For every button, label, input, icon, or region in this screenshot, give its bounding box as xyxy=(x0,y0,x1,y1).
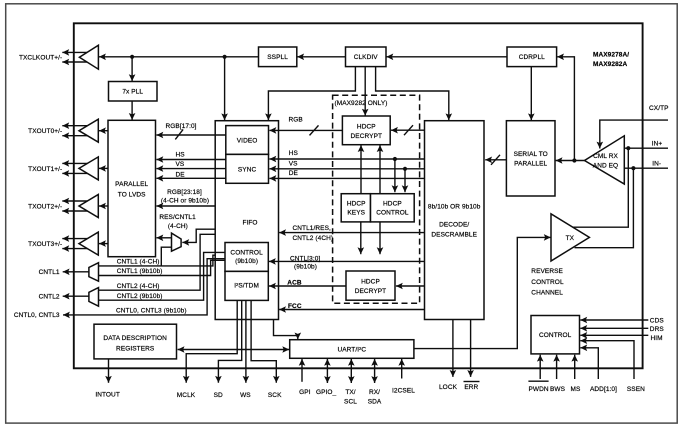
wire P2L to TXOUT3 buffer xyxy=(99,240,108,247)
svg-text:GPIO_: GPIO_ xyxy=(316,389,337,396)
wire RGB[23:18] FIFO to P2L xyxy=(156,203,215,210)
svg-text:CONTROL: CONTROL xyxy=(531,279,564,286)
svg-text:GPI: GPI xyxy=(299,389,311,396)
label RGB[23:18] (4-CH or 9b10b) xyxy=(161,189,209,205)
node junction IN+ xyxy=(626,146,630,150)
svg-text:SDA: SDA xyxy=(368,399,382,406)
svg-text:8b/10b OR 9b10b: 8b/10b OR 9b10b xyxy=(428,204,481,211)
svg-text:(MAX9282 ONLY): (MAX9282 ONLY) xyxy=(334,100,387,107)
wire FCC DECODE to FIFO xyxy=(279,306,424,313)
wire CNTL[3:0] DECODE to CONTROL xyxy=(269,258,425,265)
svg-text:CNTL0, CNTL3 (9b10b): CNTL0, CNTL3 (9b10b) xyxy=(116,307,187,314)
wire CNTL1/RES, CNTL2 DECODE to FIFO xyxy=(279,229,424,236)
VIDEO block xyxy=(226,126,269,155)
wire GPIO_ to UART (bidir) xyxy=(324,359,331,383)
SSPLL block xyxy=(259,47,297,67)
wire ERR output xyxy=(467,320,474,377)
svg-text:CNTL0, CNTL3: CNTL0, CNTL3 xyxy=(14,312,60,319)
pin label MS xyxy=(571,355,581,393)
node junction on clock line (FIFO tap) xyxy=(223,55,227,59)
node junction on clock line (7xPLL tap) xyxy=(130,55,134,59)
svg-text:WS: WS xyxy=(240,392,251,399)
svg-text:DE: DE xyxy=(176,171,186,178)
svg-text:IN+: IN+ xyxy=(652,141,663,148)
wire HDCP KEYS up to HDCP DECRYPT xyxy=(358,145,365,194)
svg-text:SSEN: SSEN xyxy=(627,386,645,393)
label CNTL[3:0] (9b10b) xyxy=(290,256,320,271)
wire ACB DECODE to HDCP DECRYPT xyxy=(396,283,425,290)
svg-text:CDRPLL: CDRPLL xyxy=(519,54,545,61)
HDCP CONTROL block xyxy=(371,194,415,222)
svg-text:CNTL1 (4-CH): CNTL1 (4-CH) xyxy=(117,259,160,266)
node junction on VS line xyxy=(403,167,407,171)
wire IN- xyxy=(624,167,668,169)
wire junction to FIFO top xyxy=(221,57,228,121)
CONTROL (9b10b) block xyxy=(225,243,268,272)
svg-text:TXOUT2+/-: TXOUT2+/- xyxy=(28,203,62,210)
wire HIM to CONTROL xyxy=(580,332,648,339)
svg-text:INTOUT: INTOUT xyxy=(95,391,120,398)
wire CDRPLL to SERIAL TO PARALLEL xyxy=(528,67,535,121)
svg-text:CNTL[3:0]: CNTL[3:0] xyxy=(290,256,320,263)
svg-text:TXOUT0+/-: TXOUT0+/- xyxy=(28,128,62,135)
svg-text:(4-CH): (4-CH) xyxy=(168,223,188,230)
svg-text:UART/I²C: UART/I²C xyxy=(337,346,366,353)
label RES/CNTL1 (4-CH) xyxy=(159,214,196,230)
wire TX output- to IN- xyxy=(575,168,634,248)
svg-text:I2CSEL: I2CSEL xyxy=(392,388,415,395)
svg-text:ERR: ERR xyxy=(464,384,478,391)
CNTL1 mux xyxy=(89,263,99,282)
svg-text:HIM: HIM xyxy=(651,335,663,342)
wire TXOUT3- output xyxy=(62,245,87,252)
svg-text:CNTL1: CNTL1 xyxy=(39,269,60,276)
node junction on HS line xyxy=(393,157,397,161)
wire CNTL1 (9b10b) CONTROL to mux xyxy=(99,260,226,275)
svg-text:HDCP: HDCP xyxy=(361,279,380,286)
wire RGB[17:0] VIDEO to P2L xyxy=(156,129,225,139)
wire MCLK output xyxy=(183,300,237,383)
svg-text:ACB: ACB xyxy=(287,280,302,287)
svg-text:TX: TX xyxy=(566,235,575,242)
wire SCK output xyxy=(251,300,280,383)
TXCLKOUT buffer xyxy=(79,45,98,69)
CNTL2 mux xyxy=(89,288,99,307)
label CNTL1/RES, CNTL2 (4CH) xyxy=(293,225,334,242)
wire junction to 7x PLL xyxy=(129,57,136,81)
wire HDCP CONTROL down xyxy=(377,222,384,254)
svg-text:REVERSE: REVERSE xyxy=(531,268,563,275)
svg-text:SERIAL TO: SERIAL TO xyxy=(514,151,548,158)
svg-text:RGB[23:18]: RGB[23:18] xyxy=(167,189,202,196)
wire PWDN to CONTROL xyxy=(537,355,544,379)
svg-text:HS: HS xyxy=(176,151,186,158)
wire P2L to TXOUT1 buffer xyxy=(99,165,108,172)
svg-text:PARALLEL: PARALLEL xyxy=(514,161,547,168)
wire TXOUT1+ output xyxy=(62,160,87,167)
svg-text:CNTL2: CNTL2 xyxy=(39,294,60,301)
svg-text:DESCRAMBLE: DESCRAMBLE xyxy=(431,231,477,238)
svg-text:PWDN: PWDN xyxy=(529,386,549,393)
wire WS output xyxy=(243,300,250,383)
wire TXOUT3+ output xyxy=(62,235,87,242)
svg-text:CONTROL: CONTROL xyxy=(230,250,263,257)
wire TXOUT2- output xyxy=(62,208,87,215)
node junction CML output xyxy=(572,158,576,162)
svg-text:CNTL1 (9b10b): CNTL1 (9b10b) xyxy=(117,268,163,275)
wire CLKDIV right out to DECODE top xyxy=(376,67,453,121)
svg-text:RX/: RX/ xyxy=(369,389,380,396)
wire TXCLKOUT- output xyxy=(62,59,87,66)
svg-text:SYNC: SYNC xyxy=(238,166,257,173)
svg-text:DECODE/: DECODE/ xyxy=(439,221,469,228)
svg-text:MAX9278A/: MAX9278A/ xyxy=(593,51,629,58)
CDRPLL block xyxy=(507,47,557,67)
wire SSEN to CONTROL xyxy=(580,337,634,379)
wire HS SYNC to P2L xyxy=(156,156,225,163)
svg-text:TXOUT3+/-: TXOUT3+/- xyxy=(28,241,62,248)
wire VS tap to HDCP CONTROL xyxy=(402,169,409,192)
svg-text:LOCK: LOCK xyxy=(439,384,458,391)
svg-text:HS: HS xyxy=(289,150,299,157)
wire HDCP KEYS down xyxy=(358,222,365,254)
svg-text:VS: VS xyxy=(176,161,185,168)
svg-text:CDS: CDS xyxy=(650,318,665,325)
wire DE DECODE to SYNC xyxy=(269,175,424,182)
wire HS DECODE to SYNC xyxy=(269,156,424,163)
wire CDS to CONTROL xyxy=(580,317,648,324)
wire ADD[1:0] to CONTROL xyxy=(580,345,598,380)
pin label PWDN (overbar) xyxy=(528,381,549,393)
svg-text:REGISTERS: REGISTERS xyxy=(116,345,155,352)
wire RGB HDCP DECRYPT to VIDEO xyxy=(269,125,342,135)
wire CNTL1 mux output xyxy=(63,269,89,276)
svg-text:HDCP: HDCP xyxy=(357,123,376,130)
wire RES/CNTL1 mux lower tap xyxy=(161,247,171,266)
TXOUT1 buffer xyxy=(79,157,98,180)
FIFO block (outer) xyxy=(215,121,278,320)
wire TXOUT0+ output xyxy=(62,122,87,129)
svg-text:MCLK: MCLK xyxy=(177,392,196,399)
svg-text:BWS: BWS xyxy=(550,386,566,393)
svg-text:TXOUT1+/-: TXOUT1+/- xyxy=(28,166,62,173)
svg-text:SCK: SCK xyxy=(268,392,282,399)
wire FIFO to RES/CNTL1 mux input xyxy=(182,229,215,246)
svg-text:VIDEO: VIDEO xyxy=(237,137,258,144)
DECODE/DESCRAMBLE block xyxy=(425,121,485,320)
CML RX AND EQ buffer xyxy=(585,136,625,184)
svg-text:CNTL1/RES,: CNTL1/RES, xyxy=(293,225,331,232)
wire 7x PLL to PARALLEL TO LVDS xyxy=(129,101,136,120)
wire TXOUT0- output xyxy=(62,132,87,139)
wire P2L to TXOUT0 buffer xyxy=(99,127,108,134)
wire DE SYNC to P2L xyxy=(156,175,225,182)
wire DECODE to SERIAL TO PARALLEL xyxy=(485,155,506,165)
pin label RX/SDA xyxy=(368,389,382,406)
wire FIFO to UART xyxy=(274,320,302,340)
svg-text:(9b10b): (9b10b) xyxy=(235,258,258,265)
wire CNTL2 mux output xyxy=(63,293,89,300)
svg-text:MAX9282A: MAX9282A xyxy=(593,61,627,68)
wire VS SYNC to P2L xyxy=(156,165,225,172)
svg-text:DATA DESCRIPTION: DATA DESCRIPTION xyxy=(103,335,167,342)
7x PLL block xyxy=(109,82,158,102)
wire TXOUT2+ output xyxy=(62,198,87,205)
svg-text:DECRYPT: DECRYPT xyxy=(355,288,387,295)
svg-text:SCL: SCL xyxy=(344,399,357,406)
svg-text:HDCP: HDCP xyxy=(347,201,366,208)
wire SSPLL to TXCLKOUT buffer xyxy=(99,54,259,61)
HDCP KEYS block xyxy=(341,194,370,222)
svg-text:CHANNEL: CHANNEL xyxy=(531,290,563,297)
svg-text:RGB[17:0]: RGB[17:0] xyxy=(166,123,197,130)
svg-text:MS: MS xyxy=(571,386,581,393)
RES/CNTL1 mux xyxy=(172,233,182,251)
wire VS DECODE to SYNC xyxy=(269,166,424,173)
wire P2L to TXOUT2 buffer xyxy=(99,203,108,210)
HDCP dashed box (MAX9282 ONLY) xyxy=(333,95,420,303)
wire INTOUT output xyxy=(105,359,112,383)
wire DATA DESCRIPTION REGISTERS to UART (bidir) xyxy=(178,346,290,353)
svg-text:KEYS: KEYS xyxy=(347,209,365,216)
wire IN+ xyxy=(624,147,668,149)
svg-text:DE: DE xyxy=(289,170,299,177)
HDCP DECRYPT block (bottom) xyxy=(346,271,395,300)
wire SD output xyxy=(215,300,242,383)
DATA DESCRIPTION REGISTERS block xyxy=(94,324,177,359)
wire LOCK output xyxy=(450,320,457,377)
wire TXCLKOUT+ output xyxy=(62,49,87,56)
wire CNTL0, CNTL3 (9b10b) CONTROL to pin xyxy=(63,259,225,319)
svg-text:DECRYPT: DECRYPT xyxy=(351,133,383,140)
svg-text:IN-: IN- xyxy=(652,160,661,167)
pin label BWS xyxy=(550,355,566,393)
CONTROL block (bottom right) xyxy=(531,316,580,354)
svg-text:VS: VS xyxy=(289,161,298,168)
wire DRS to CONTROL xyxy=(580,325,648,332)
svg-text:ADD[1:0]: ADD[1:0] xyxy=(590,386,617,393)
wire UART to TX input xyxy=(414,234,551,349)
wire I2CSEL to UART xyxy=(398,359,405,379)
wire CLKDIV mid out to HDCP DECRYPT top xyxy=(362,67,369,116)
TXOUT0 buffer xyxy=(79,119,98,142)
wire HS tap to HDCP CONTROL xyxy=(392,159,399,192)
svg-text:AND EQ: AND EQ xyxy=(593,163,618,170)
wire CNTL1 (4-CH) FIFO to mux xyxy=(99,255,216,266)
svg-text:CNTL2 (4CH): CNTL2 (4CH) xyxy=(293,235,334,242)
svg-text:CONTROL: CONTROL xyxy=(539,332,572,339)
svg-text:TO LVDS: TO LVDS xyxy=(118,192,146,199)
SERIAL TO PARALLEL block xyxy=(506,121,555,196)
SYNC block xyxy=(226,154,269,183)
wire DECODE to HDCP DECRYPT (RGB in) xyxy=(391,125,425,135)
part number MAX9278A/MAX9282A xyxy=(593,51,629,68)
chip boundary xyxy=(74,23,643,368)
node junction IN- xyxy=(631,166,635,170)
svg-text:RGB: RGB xyxy=(289,116,303,123)
svg-text:7x PLL: 7x PLL xyxy=(122,89,143,96)
svg-text:FCC: FCC xyxy=(288,303,302,310)
svg-text:SD: SD xyxy=(214,392,223,399)
svg-text:PARALLEL: PARALLEL xyxy=(115,181,148,188)
wire CDRPLL to CLKDIV xyxy=(386,54,507,61)
svg-text:RES/CNTL1: RES/CNTL1 xyxy=(159,214,196,221)
wire CML RX to SERIAL TO PARALLEL xyxy=(556,157,585,164)
TXOUT3 buffer xyxy=(79,232,98,255)
wire CML node to CDRPLL xyxy=(557,54,574,161)
svg-text:CNTL2 (9b10b): CNTL2 (9b10b) xyxy=(117,293,163,300)
wire TXOUT1- output xyxy=(62,170,87,177)
svg-text:FIFO: FIFO xyxy=(242,219,257,226)
svg-text:CNTL2 (4-CH): CNTL2 (4-CH) xyxy=(117,283,160,290)
svg-text:CONTROL: CONTROL xyxy=(376,209,409,216)
CLKDIV block xyxy=(346,47,387,67)
wire GPI to UART xyxy=(299,359,306,382)
svg-text:TX/: TX/ xyxy=(345,389,355,396)
svg-text:HDCP: HDCP xyxy=(383,201,402,208)
wire RX/SDA to UART (bidir) xyxy=(371,359,378,383)
pin label TX/SCL xyxy=(344,389,357,406)
svg-text:CX/TP: CX/TP xyxy=(649,105,669,112)
wire HDCP CONTROL up to HDCP DECRYPT xyxy=(377,145,384,194)
svg-text:TXCLKOUT+/-: TXCLKOUT+/- xyxy=(19,55,62,62)
svg-text:CML RX: CML RX xyxy=(593,153,618,160)
PARALLEL TO LVDS block xyxy=(108,120,156,256)
wire ACB HDCP DECRYPT to I2S/TDM xyxy=(269,283,346,290)
wire CLKDIV to SSPLL xyxy=(297,54,345,61)
HDCP DECRYPT block (top) xyxy=(342,116,390,145)
wire RES/CNTL1 mux output to P2L xyxy=(156,235,171,242)
svg-text:DRS: DRS xyxy=(650,326,665,333)
UART/I2C block xyxy=(290,340,414,359)
REVERSE CONTROL CHANNEL label xyxy=(531,268,564,297)
svg-text:CLKDIV: CLKDIV xyxy=(354,54,379,61)
wire TX output+ to IN+ xyxy=(573,148,629,227)
I2S/TDM block xyxy=(225,271,268,300)
svg-text:SSPLL: SSPLL xyxy=(267,54,288,61)
svg-text:(9b10b): (9b10b) xyxy=(294,263,317,270)
wire CLKDIV left out to FIFO top xyxy=(265,67,355,121)
wire CNTL2 (9b10b) CONTROL to mux xyxy=(99,252,226,300)
wire TX/SCL to UART (bidir) xyxy=(348,359,355,383)
wire CX/TP to CML RX xyxy=(597,120,669,148)
svg-text:I²S/TDM: I²S/TDM xyxy=(234,282,259,289)
TX buffer (reverse control channel) xyxy=(551,214,589,261)
TXOUT2 buffer xyxy=(79,195,98,218)
pin label ERR (overbar) xyxy=(464,382,480,392)
svg-text:(4-CH or 9b10b): (4-CH or 9b10b) xyxy=(161,198,209,205)
wire CNTL2 (4-CH) FIFO to mux xyxy=(99,234,216,290)
